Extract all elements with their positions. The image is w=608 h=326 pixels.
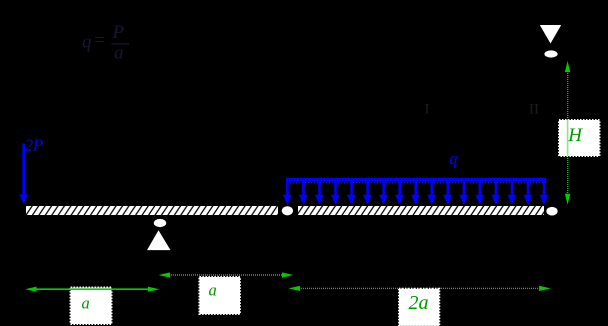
distributed load q bar — [286, 178, 546, 182]
dimension line a (left, solid) — [25, 287, 159, 292]
force 2P arrow — [19, 144, 28, 205]
dimension H label box — [559, 120, 600, 156]
dimension line a (middle, dotted) — [159, 272, 294, 277]
top hanger triangle (inverted) — [540, 25, 561, 44]
pin support triangle under left beam — [147, 230, 171, 250]
top hanger ellipse — [544, 50, 557, 57]
svg-text:q: q — [82, 32, 92, 53]
svg-text:2a: 2a — [409, 292, 429, 314]
dimension label box 2a — [399, 289, 439, 326]
svg-text:2P: 2P — [25, 136, 43, 155]
hinge ellipse at right beam end — [546, 207, 557, 216]
svg-text:P: P — [112, 22, 125, 43]
svg-text:a: a — [82, 294, 90, 313]
svg-text:=: = — [94, 30, 105, 51]
dimension line 2a (right, dotted) — [288, 286, 550, 291]
pin support ellipse under left beam — [154, 219, 166, 227]
dimension label box a (left) — [71, 288, 112, 325]
dimension label box a (middle) — [199, 277, 240, 314]
beam segment II (right, hatched) — [298, 206, 544, 215]
svg-text:a: a — [209, 281, 217, 300]
svg-text:II: II — [529, 102, 539, 118]
formula q = P/a — [82, 22, 129, 64]
dimension line inside H box — [567, 120, 569, 156]
hinge ellipse between beams — [282, 206, 293, 215]
svg-text:q: q — [449, 149, 458, 168]
distributed load arrows — [283, 181, 549, 205]
dimension H vertical line — [565, 61, 570, 205]
beam segment I (left, hatched) — [26, 206, 278, 215]
svg-text:H: H — [567, 125, 583, 146]
svg-text:I: I — [425, 102, 430, 118]
svg-text:a: a — [114, 43, 124, 64]
